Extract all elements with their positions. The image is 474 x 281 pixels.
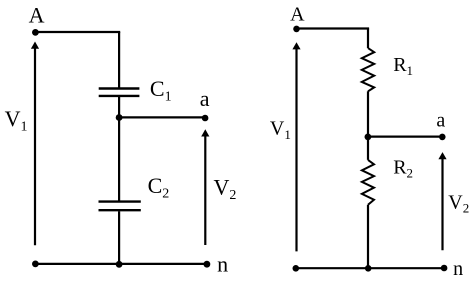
wire: top horizontal, node A to R1 branch (right circuit) xyxy=(297,27,370,29)
resistor R1 zigzag body xyxy=(362,48,374,91)
svg-text:n: n xyxy=(453,258,463,280)
wire: top horizontal, node A to C1 branch (left circuit) xyxy=(35,31,120,33)
svg-text:a: a xyxy=(200,86,210,111)
node n (right circuit) dot xyxy=(441,265,448,272)
node A (right circuit) junction dot xyxy=(293,26,300,33)
bottom-middle junction dot below R2 (right circuit) xyxy=(365,265,372,272)
wire: vertical from top wire down to C1 top plate xyxy=(118,32,120,88)
svg-text:n: n xyxy=(217,252,228,277)
svg-text:A: A xyxy=(29,2,45,27)
svg-text:A: A xyxy=(290,4,305,26)
voltage arrow V1 (right circuit) line xyxy=(295,48,297,251)
wire: horizontal from midpoint junction to node a (right circuit) xyxy=(368,136,442,138)
voltage arrow V1 (left circuit) arrowhead xyxy=(31,42,39,49)
junction dot at C1/C2 midpoint (left circuit) xyxy=(116,114,123,121)
capacitor C2 bottom plate xyxy=(99,209,141,211)
bottom-left terminal dot (left circuit) xyxy=(32,261,39,268)
voltage arrow V1 (left circuit) line xyxy=(34,48,36,246)
node a (right circuit) dot xyxy=(439,134,446,141)
wire: vertical from top wire down to R1 top xyxy=(367,29,369,49)
node a (left circuit) dot xyxy=(202,115,209,122)
resistor R2 zigzag body xyxy=(362,160,374,205)
junction dot at R1/R2 midpoint (right circuit) xyxy=(365,134,372,141)
wire: bottom rail (right circuit) xyxy=(296,267,444,269)
bottom-left terminal dot (right circuit) xyxy=(293,265,300,272)
voltage arrow V2 (right circuit) line xyxy=(441,158,443,250)
wire: horizontal from midpoint junction to node a (left circuit) xyxy=(119,116,205,118)
voltage arrow V2 (right circuit) arrowhead xyxy=(438,152,446,159)
node n (left circuit) dot xyxy=(204,261,211,268)
capacitor C1 bottom plate xyxy=(99,95,140,97)
svg-text:a: a xyxy=(436,110,445,132)
wire: vertical from R2 bottom to bottom rail (right circuit) xyxy=(367,205,369,268)
capacitor C2 top plate xyxy=(99,200,141,202)
node A (left circuit) junction dot xyxy=(32,29,39,36)
capacitor C1 top plate xyxy=(99,87,140,89)
wire: bottom rail (left circuit) xyxy=(35,263,207,265)
voltage arrow V2 (left circuit) arrowhead xyxy=(201,129,209,136)
bottom-middle junction dot below C2 (left circuit) xyxy=(116,261,123,268)
voltage arrow V2 (left circuit) line xyxy=(204,136,206,246)
wire: vertical from C1 bottom plate down to C2 top plate (through midpoint junction) xyxy=(118,97,120,201)
wire: vertical from C2 bottom plate down to bottom rail xyxy=(118,211,120,264)
voltage arrow V1 (right circuit) arrowhead xyxy=(292,42,300,49)
wire: vertical from R1 bottom to midpoint junction, down to R2 top xyxy=(367,91,369,160)
